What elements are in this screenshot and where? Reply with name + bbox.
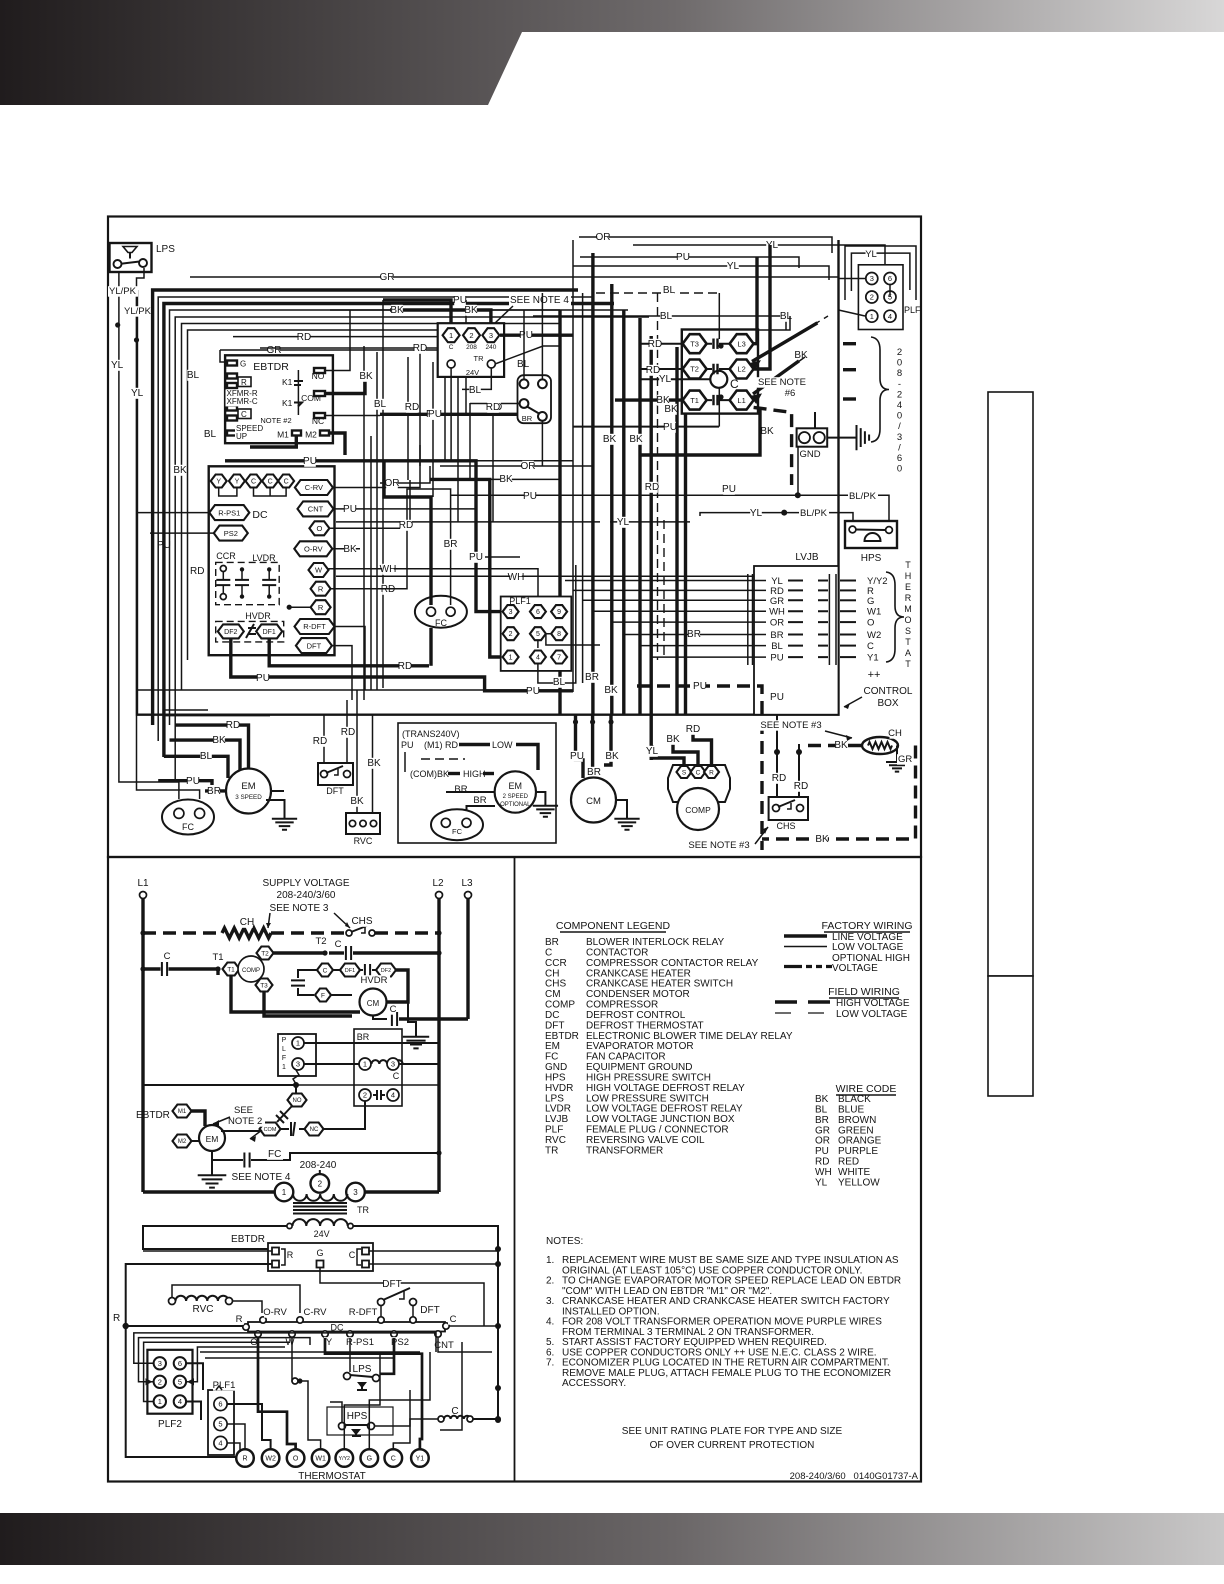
wire mid vertical 1 [363, 346, 365, 700]
wire plf2 loop 3 [144, 1342, 290, 1401]
svg-text:HVDR: HVDR [545, 1083, 573, 1094]
factory wiring items [784, 932, 910, 974]
BR coil row [359, 1058, 403, 1081]
svg-text:PLF: PLF [904, 305, 921, 315]
see note 2 [213, 1105, 265, 1142]
ground 2speed [533, 792, 558, 817]
svg-text:HPS: HPS [347, 1411, 368, 1422]
svg-text:WH: WH [815, 1167, 832, 1178]
svg-text:2.: 2. [546, 1276, 554, 1287]
capacitor C left [143, 951, 221, 976]
svg-text:NOTES:: NOTES: [546, 1236, 583, 1247]
label RD right ebtdr [405, 402, 419, 413]
wire bus 5 [170, 310, 629, 725]
svg-text:CH: CH [545, 968, 559, 979]
dc strip bottom terminals [249, 1331, 454, 1351]
svg-text:CONTROL: CONTROL [864, 686, 913, 697]
svg-text:OR: OR [815, 1136, 830, 1147]
wire O tstat [258, 1338, 296, 1449]
svg-text:BL: BL [204, 429, 217, 440]
svg-text:UP: UP [236, 432, 247, 441]
svg-text:SEE NOTE #3: SEE NOTE #3 [760, 720, 821, 731]
wire mid vertical 11 [469, 403, 471, 480]
see note 3 top [758, 720, 852, 741]
svg-text:RVC: RVC [545, 1135, 566, 1146]
svg-text:208-240: 208-240 [300, 1160, 337, 1171]
svg-text:YL: YL [659, 374, 672, 385]
svg-text:C: C [730, 377, 739, 391]
svg-text:BK: BK [350, 796, 364, 807]
svg-text:BK: BK [815, 834, 829, 845]
wire mid vertical 10 [465, 300, 467, 414]
wire br3 right [399, 1063, 440, 1065]
label BL/PK 1 [848, 491, 878, 502]
svg-text:YL: YL [865, 249, 877, 260]
reversing valve coil RVC box [346, 813, 380, 846]
svg-text:3: 3 [870, 274, 874, 283]
svg-text:YL: YL [727, 261, 740, 272]
DC hex W [309, 563, 329, 577]
wire YL hps [700, 508, 839, 519]
svg-text:1: 1 [158, 1397, 162, 1406]
bottom diagram outer box [108, 857, 921, 1482]
wire CM cap C [373, 1004, 468, 1026]
wire vertical bundle 9 [684, 364, 687, 714]
svg-text:FC: FC [452, 827, 463, 836]
label BL plf1 [553, 677, 566, 688]
wire plf 6 down [889, 285, 891, 297]
svg-text:L1: L1 [137, 878, 149, 889]
wire ebtdr right feeds [369, 1251, 498, 1264]
svg-text:CHS: CHS [351, 916, 372, 927]
svg-text:F: F [282, 1055, 286, 1062]
svg-text:SUPPLY VOLTAGE: SUPPLY VOLTAGE [262, 878, 349, 889]
label BL ebtdr1 [187, 370, 200, 381]
svg-text:WH: WH [769, 607, 785, 618]
wire ebtdr G down [320, 1268, 484, 1326]
svg-text:HPS: HPS [861, 553, 882, 564]
svg-text:GR: GR [380, 272, 395, 283]
L3 rail [465, 892, 472, 1020]
label CCR [216, 551, 236, 561]
CCR LVDR dashed box [216, 562, 280, 604]
svg-text:WHITE: WHITE [838, 1167, 871, 1178]
svg-text:PU: PU [523, 491, 537, 502]
svg-text:REVERSING VALVE COIL: REVERSING VALVE COIL [586, 1135, 705, 1146]
right sidebar upper box [988, 392, 1033, 976]
label BK right ebtdr [359, 371, 373, 382]
svg-text:BK: BK [760, 426, 774, 437]
label THERMOSTAT vertical [904, 560, 912, 669]
wire T1 down loop [218, 969, 360, 1012]
rating plate note [622, 1426, 843, 1451]
LVJB row OR [768, 618, 874, 629]
svg-text:R: R [242, 1456, 247, 1463]
svg-text:DF1: DF1 [263, 629, 276, 636]
LVDR contact 1 [235, 567, 249, 599]
svg-text:R: R [287, 1250, 294, 1260]
wire hbus 1352 [200, 1351, 420, 1353]
svg-text:Y1: Y1 [416, 1456, 425, 1463]
wire bus 1085 [143, 1082, 440, 1093]
svg-text:DFT: DFT [326, 786, 344, 796]
wire plf2 loop 4 [186, 1347, 285, 1382]
wire ebtdr left feeds [112, 1251, 272, 1457]
svg-text:EM: EM [509, 781, 523, 791]
svg-text:T: T [905, 560, 911, 570]
label EBTDR schematic [136, 1110, 170, 1121]
svg-text:4.: 4. [546, 1317, 554, 1328]
wire O-RV out [332, 544, 360, 555]
label RD br [488, 402, 502, 413]
wire PU above DC [225, 456, 573, 612]
wire tr sec left [143, 1226, 287, 1249]
svg-text:C: C [349, 1250, 356, 1260]
wire vertical bundle 6 [638, 318, 641, 714]
svg-text:FC: FC [268, 1149, 281, 1160]
svg-text:CRANKCASE HEATER SWITCH: CRANKCASE HEATER SWITCH [586, 979, 733, 990]
see note 3 bottom [686, 827, 768, 851]
fan capacitor FC top [415, 596, 467, 628]
label CONTROL BOX [844, 686, 913, 709]
svg-text:R: R [241, 378, 247, 387]
label EBTDR lower [231, 1234, 265, 1245]
low pressure switch LPS schematic [344, 1364, 380, 1390]
label PU left [156, 540, 172, 551]
svg-text:BK: BK [629, 434, 643, 445]
svg-text:C-RV: C-RV [305, 483, 323, 492]
svg-text:++: ++ [868, 669, 881, 681]
svg-text:EM: EM [241, 781, 255, 792]
svg-text:RD: RD [486, 402, 500, 413]
wire PU br [380, 409, 517, 420]
evaporator motor EM [226, 769, 271, 814]
svg-text:BK: BK [499, 474, 513, 485]
dc junction dot [287, 605, 292, 610]
wire dashed vertical 1 [657, 293, 659, 660]
svg-text:YL: YL [815, 1177, 828, 1188]
svg-text:208-240/3/60: 208-240/3/60 [277, 890, 336, 901]
svg-text:3: 3 [391, 1060, 395, 1069]
svg-text:ACCESSORY.: ACCESSORY. [562, 1378, 626, 1389]
compressor COMP schematic [212, 947, 273, 992]
svg-text:1: 1 [282, 1064, 286, 1071]
svg-text:S: S [905, 626, 911, 636]
wire plf1 4 down [538, 565, 576, 683]
label 208-240/3/60 vertical [897, 347, 902, 475]
diag dashed from L1 [754, 407, 792, 485]
svg-text:O: O [316, 524, 322, 533]
svg-text:COMPONENT LEGEND: COMPONENT LEGEND [556, 920, 671, 932]
svg-text:NO: NO [293, 1098, 302, 1104]
svg-text:YL/PK: YL/PK [124, 306, 152, 317]
wire plf2 loop 2 [139, 1338, 311, 1382]
wire BK dashed to CH [808, 740, 862, 751]
svg-text:/: / [898, 421, 901, 432]
DC hex R2 [311, 600, 331, 614]
diag BK from L2 [749, 316, 828, 370]
svg-text:CCR: CCR [216, 551, 236, 561]
svg-text:F: F [321, 992, 325, 999]
condenser motor CM schematic [360, 989, 387, 1016]
svg-text:CONDENSER MOTOR: CONDENSER MOTOR [586, 989, 690, 1000]
optional 2-speed motor box TRANS240V [398, 723, 556, 843]
wire mid vertical 3 [376, 352, 378, 690]
wire C-RV out [333, 445, 420, 488]
svg-text:BL: BL [815, 1104, 828, 1115]
wire tr sec right [353, 1226, 501, 1252]
wire R out [381, 584, 395, 595]
svg-text:BK: BK [666, 734, 680, 745]
diag BK from L1 [750, 357, 805, 404]
DC hex R1 [311, 582, 331, 596]
wire mid vertical 5 [407, 357, 409, 480]
wire RD chs 1 [772, 714, 786, 800]
wire m2 em [192, 1140, 200, 1142]
field wiring title [828, 986, 900, 998]
svg-text:BK: BK [815, 1094, 829, 1105]
wire ebtdr M1 down [250, 436, 296, 447]
wire bus 2 [153, 290, 578, 725]
svg-text:(TRANS240V): (TRANS240V) [402, 729, 460, 739]
wire PU top [580, 252, 799, 268]
svg-text:R: R [709, 769, 714, 776]
DC hex CNT [298, 501, 334, 516]
wire br 2speed [446, 792, 495, 817]
wire OR mid [440, 461, 593, 472]
svg-text:4: 4 [897, 400, 902, 411]
label PU right ebtdr [428, 409, 442, 420]
wire plf1l 5 [227, 1424, 245, 1449]
svg-text:S: S [682, 769, 687, 776]
svg-text:CONTACTOR: CONTACTOR [586, 947, 648, 958]
svg-text:BLUE: BLUE [838, 1104, 864, 1115]
svg-text:COMPRESSOR CONTACTOR RELAY: COMPRESSOR CONTACTOR RELAY [586, 958, 759, 969]
defrost control DC strip [248, 1322, 445, 1333]
svg-text:PURPLE: PURPLE [838, 1146, 878, 1157]
DC top hexes [211, 475, 294, 497]
svg-text:6: 6 [178, 1359, 182, 1368]
LVJB left strip [748, 574, 753, 665]
dashed stub 3 [843, 397, 862, 400]
svg-text:2: 2 [897, 389, 902, 400]
DC hex O-RV [294, 541, 332, 556]
svg-text:EQUIPMENT GROUND: EQUIPMENT GROUND [586, 1062, 693, 1073]
svg-text:P: P [282, 1037, 287, 1044]
evaporator motor EM schematic [199, 1125, 225, 1151]
wire WH long [336, 572, 754, 583]
wire vertical bundle 2 [582, 293, 584, 683]
svg-text:BROWN: BROWN [838, 1115, 876, 1126]
header band [0, 0, 1224, 105]
svg-text:M: M [904, 604, 912, 614]
wire bus 3 [158, 297, 593, 741]
svg-text:2: 2 [870, 293, 874, 302]
crankcase heater switch CHS [769, 797, 808, 831]
label RD left [189, 566, 205, 577]
DC hex DFT [296, 638, 332, 653]
svg-text:L3: L3 [737, 339, 745, 348]
svg-text:0: 0 [897, 358, 902, 369]
wire YL loop plf [851, 249, 910, 291]
svg-text:YL: YL [617, 517, 630, 528]
wire tr primary [143, 1170, 439, 1192]
svg-text:RD: RD [381, 584, 395, 595]
wire BR to EM [205, 786, 228, 797]
svg-text:PLF2: PLF2 [158, 1419, 182, 1430]
defrost thermostat DFT schematic [378, 1279, 442, 1317]
svg-text:4: 4 [391, 1091, 395, 1100]
EBTDR terminals right [260, 368, 329, 440]
svg-text:5: 5 [178, 1378, 182, 1387]
svg-text:BR: BR [207, 786, 221, 797]
relay BR top [518, 375, 552, 423]
svg-text:G: G [240, 360, 246, 369]
evaporator motor EM 2speed [495, 771, 536, 812]
svg-text:PU: PU [428, 409, 442, 420]
svg-text:TR: TR [357, 1205, 369, 1215]
wire ebtdr M2 [330, 433, 345, 455]
svg-text:CHS: CHS [776, 821, 795, 831]
svg-text:T1: T1 [690, 396, 699, 405]
wire vertical bundle 3 [591, 253, 594, 714]
svg-text:BK: BK [173, 465, 187, 476]
svg-text:LVDR: LVDR [545, 1104, 571, 1115]
svg-text:SEE NOTE: SEE NOTE [758, 377, 806, 388]
wire BK mid [430, 474, 560, 657]
wire L3 right [753, 257, 757, 344]
svg-text:C: C [251, 479, 256, 486]
wire mid vertical 4 [382, 300, 384, 688]
svg-text:BL/PK: BL/PK [849, 491, 877, 502]
ground EM schematic [198, 1151, 227, 1188]
label BL/PK 2 [799, 508, 829, 519]
svg-text:T2: T2 [690, 365, 699, 374]
svg-text:COM: COM [301, 393, 321, 403]
svg-text:BK: BK [367, 758, 381, 769]
wire PU under contactor [573, 422, 719, 433]
svg-text:C-RV: C-RV [303, 1307, 327, 1318]
wire rvc left [172, 1285, 300, 1313]
label SEE NOTE 3 [266, 903, 350, 928]
svg-text:1: 1 [870, 312, 874, 321]
svg-text:GR: GR [898, 754, 912, 765]
chassis ground symbol [846, 425, 869, 450]
wire em right [271, 790, 284, 792]
ground CM [614, 800, 639, 830]
svg-text:2 SPEED: 2 SPEED [503, 794, 529, 800]
svg-text:LOW VOLTAGE: LOW VOLTAGE [832, 942, 904, 953]
svg-text:T1: T1 [212, 952, 223, 963]
label YL/PK 1 [108, 286, 138, 297]
svg-text:24V: 24V [466, 368, 479, 377]
svg-text:RD: RD [398, 661, 412, 672]
coil C right [438, 1406, 501, 1422]
svg-text:PU: PU [663, 422, 677, 433]
wire em fc [212, 1149, 439, 1168]
DC hex PS2 [214, 526, 248, 541]
label L3 [461, 878, 473, 889]
label LVDR [252, 553, 276, 563]
wire O out [329, 480, 410, 528]
svg-text:O: O [293, 1456, 299, 1463]
svg-text:LOW PRESSURE SWITCH: LOW PRESSURE SWITCH [586, 1093, 709, 1104]
wire YL top 2 [573, 261, 829, 280]
HVDR contact [246, 624, 256, 638]
svg-text:XFMR-C: XFMR-C [227, 397, 258, 406]
svg-text:C: C [867, 641, 874, 652]
wire BK to EM [170, 735, 241, 772]
label SEE NOTE 4 schematic [230, 1172, 292, 1183]
wire BK to comp [666, 734, 698, 765]
label THERMOSTAT bottom [298, 1471, 365, 1482]
svg-text:T3: T3 [260, 982, 268, 989]
svg-text:BLACK: BLACK [838, 1094, 871, 1105]
hex NO ebtdr [288, 1094, 307, 1107]
svg-text:OF OVER CURRENT PROTECTION: OF OVER CURRENT PROTECTION [650, 1440, 815, 1451]
label 208-240 schematic [300, 1160, 337, 1171]
svg-text:YL/PK: YL/PK [109, 286, 137, 297]
svg-text:EVAPORATOR MOTOR: EVAPORATOR MOTOR [586, 1041, 694, 1052]
svg-text:NO: NO [312, 371, 325, 381]
wire code title [836, 1083, 897, 1095]
svg-text:SEE NOTE #3: SEE NOTE #3 [688, 840, 749, 851]
svg-text:FC: FC [182, 822, 194, 832]
svg-text:BK: BK [604, 685, 618, 696]
wire vertical bundle 5 [622, 310, 625, 714]
part number [790, 1471, 919, 1482]
wire dft c [0, 0, 1, 1]
svg-text:R: R [318, 603, 324, 612]
svg-text:H: H [905, 571, 912, 581]
wire R-DFT out [335, 627, 366, 691]
wire RD to EM [175, 720, 248, 769]
wire PU mid2 [469, 552, 520, 563]
ground lug GND [796, 428, 827, 460]
wire ebtdr COM [325, 376, 365, 394]
connector PLF1 lower [208, 1380, 235, 1455]
svg-text:8: 8 [557, 631, 561, 638]
label BK bundle 1 [603, 434, 617, 445]
svg-text:W1: W1 [867, 607, 881, 618]
HVDR dashed box [216, 621, 284, 642]
wire RD to comp [686, 724, 712, 765]
wire RD chs 2 [794, 744, 808, 800]
wire nc right [324, 1102, 366, 1130]
wire BR to CM [587, 714, 601, 778]
svg-text:LPS: LPS [353, 1364, 372, 1375]
wire vertical bundle 4 [610, 284, 613, 714]
svg-text:DFT: DFT [307, 641, 322, 650]
svg-text:LOW VOLTAGE DEFROST RELAY: LOW VOLTAGE DEFROST RELAY [586, 1104, 743, 1115]
svg-text:M1: M1 [277, 430, 289, 440]
label BR 2speed [454, 784, 486, 806]
svg-text:K1: K1 [282, 377, 293, 387]
svg-text:RD: RD [190, 566, 204, 577]
wire CNT right [438, 1338, 492, 1352]
svg-text:FAN CAPACITOR: FAN CAPACITOR [586, 1052, 666, 1063]
svg-text:BR: BR [444, 539, 458, 550]
svg-text:L2: L2 [737, 365, 745, 374]
svg-text:T: T [905, 659, 911, 669]
svg-text:DC: DC [252, 509, 268, 521]
ground CM schematic [403, 1002, 429, 1048]
wire L3 right2 [757, 316, 790, 330]
svg-text:BR: BR [357, 1032, 370, 1042]
wire plf2 4 right [186, 1402, 201, 1421]
wire plf1l 6 [227, 1404, 271, 1449]
svg-text:C: C [696, 769, 701, 776]
